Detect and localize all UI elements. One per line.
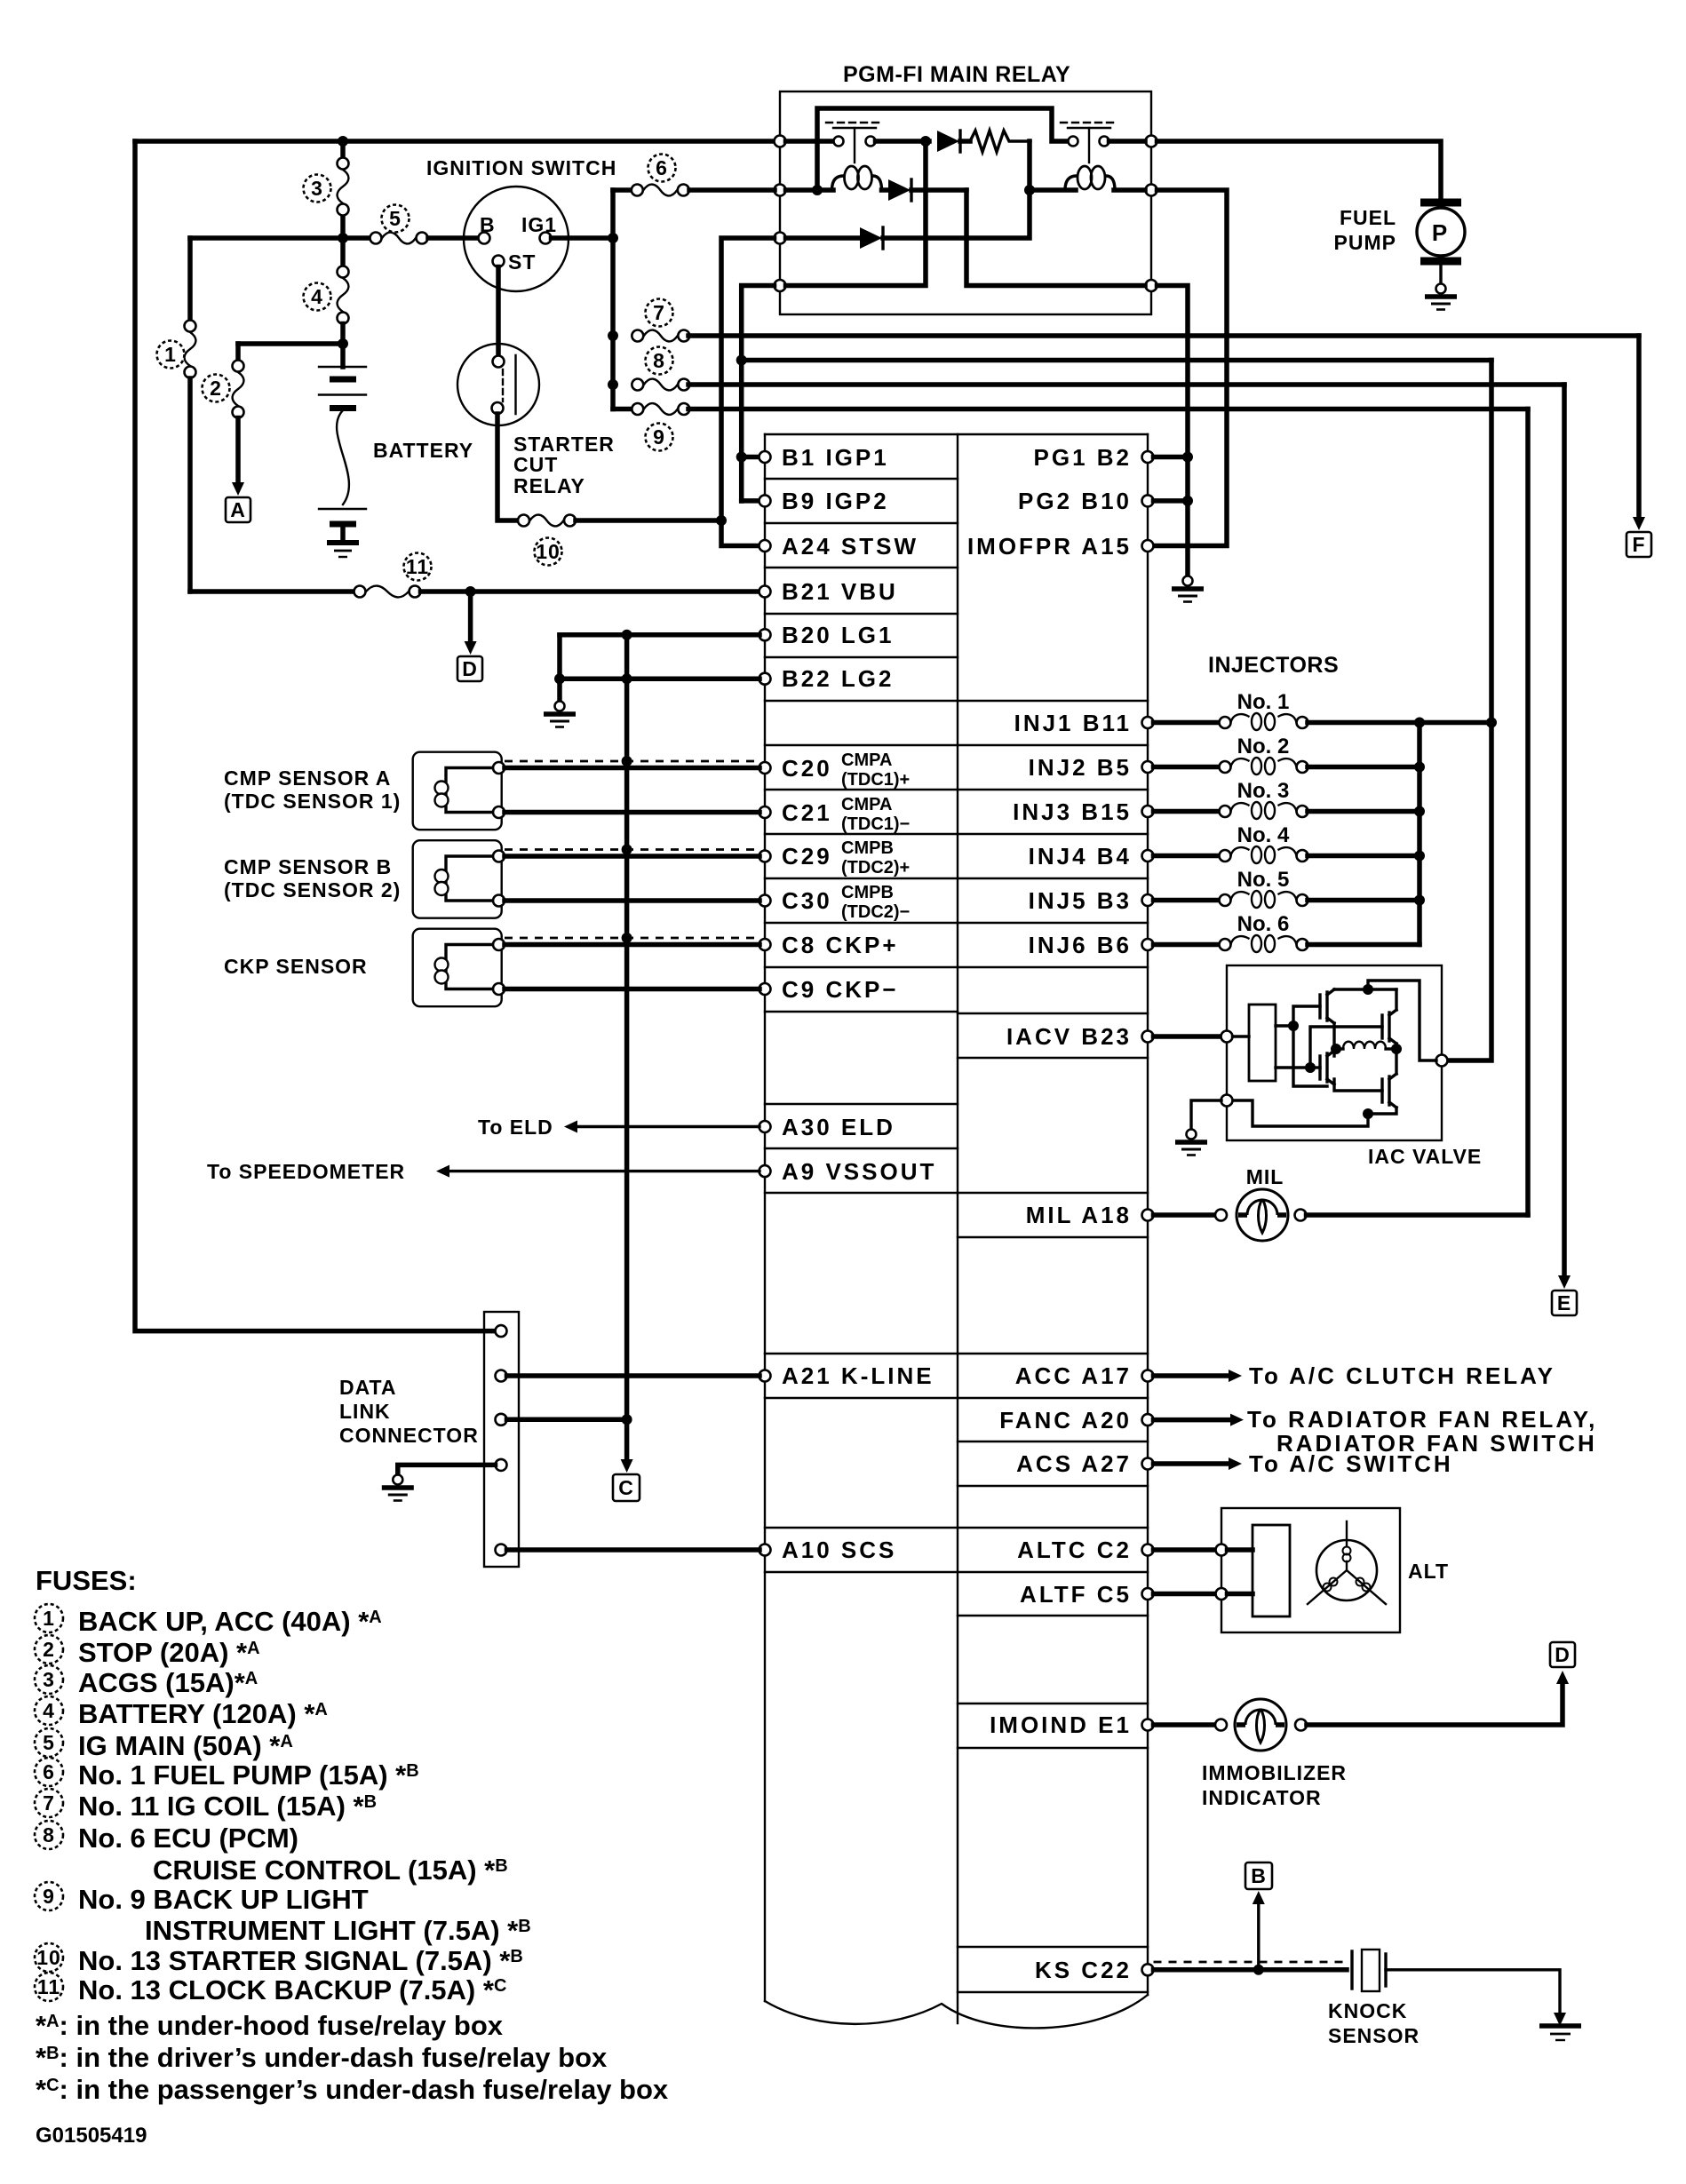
svg-text:A21 K-LINE: A21 K-LINE xyxy=(782,1362,934,1389)
svg-text:IAC VALVE: IAC VALVE xyxy=(1368,1145,1482,1168)
DLC pin 3 xyxy=(496,1414,507,1426)
wire left border xyxy=(135,141,494,1331)
ALT box xyxy=(1221,1508,1400,1632)
diode D1 xyxy=(937,131,959,152)
fuse 3 label xyxy=(304,175,331,203)
svg-text:B1 IGP1: B1 IGP1 xyxy=(782,444,889,471)
wire relay row3-left to A24 riser xyxy=(721,238,775,546)
pin C30 CMPB - xyxy=(759,895,771,907)
svg-text:KNOCK: KNOCK xyxy=(1328,1999,1407,2022)
svg-text:INJ3 B15: INJ3 B15 xyxy=(1013,798,1132,825)
wire LG loop xyxy=(557,635,562,679)
pin PG2 B10 xyxy=(1142,495,1154,506)
svg-text:(TDC2)−: (TDC2)− xyxy=(841,902,910,922)
starter cut relay K2 xyxy=(457,344,539,425)
svg-text:INSTRUMENT LIGHT (7.5A) *B: INSTRUMENT LIGHT (7.5A) *B xyxy=(145,1915,531,1946)
transistor Q4 xyxy=(1382,1074,1396,1108)
DLC pin 1 xyxy=(496,1325,507,1337)
relay terminals left xyxy=(775,136,786,147)
node D box xyxy=(457,656,482,681)
wire coil2 right xyxy=(1114,187,1145,193)
svg-text:No. 9 BACK UP LIGHT: No. 9 BACK UP LIGHT xyxy=(78,1884,369,1915)
node B22 junctions xyxy=(554,673,565,684)
wire shield rail to C box xyxy=(624,635,630,1461)
svg-text:BATTERY: BATTERY xyxy=(373,439,473,462)
svg-text:FUEL: FUEL xyxy=(1340,206,1396,229)
ground LG xyxy=(544,702,576,727)
CKP sensor box xyxy=(413,929,502,1007)
svg-text:A: A xyxy=(230,498,246,521)
wire to B1 xyxy=(742,455,759,460)
fuse 8 (No.6 ECU) xyxy=(632,379,689,391)
svg-text:No. 4: No. 4 xyxy=(1237,823,1290,847)
fuse 6 (No.1 FUEL PUMP) xyxy=(613,187,632,193)
svg-text:ACGS (15A)*A: ACGS (15A)*A xyxy=(78,1667,258,1698)
fuse 7 (No.11 IG COIL) xyxy=(632,330,689,342)
svg-text:CMP SENSOR B: CMP SENSOR B xyxy=(224,855,392,878)
svg-text:2: 2 xyxy=(43,1638,55,1661)
svg-text:E: E xyxy=(1557,1291,1571,1314)
fuse 4 label xyxy=(304,283,331,311)
wire row2 left xyxy=(786,187,834,193)
svg-text:B: B xyxy=(480,213,496,236)
wire KS shield (dashed) xyxy=(1154,1961,1344,1964)
fuse 3 (ACGS) xyxy=(340,141,346,157)
fuse 7 label xyxy=(646,299,673,327)
svg-text:1: 1 xyxy=(43,1607,55,1630)
pin ALTC C2 xyxy=(1142,1545,1154,1556)
DLC pin 4 xyxy=(496,1459,507,1471)
pin C20 CMPA + xyxy=(759,762,771,774)
pin B20 LG1 xyxy=(759,629,771,640)
svg-text:INJ5 B3: INJ5 B3 xyxy=(1029,887,1132,914)
transistor Q3 xyxy=(1320,1051,1334,1084)
svg-text:3: 3 xyxy=(311,177,323,200)
pin MIL A18 xyxy=(1142,1210,1154,1221)
fuse 1 (BACK UP, ACC) xyxy=(185,321,196,378)
svg-text:B9 IGP2: B9 IGP2 xyxy=(782,488,889,514)
battery BT1 xyxy=(340,344,346,367)
svg-text:(TDC1)−: (TDC1)− xyxy=(841,814,910,834)
pin INJ5 B3 xyxy=(1142,894,1154,906)
DLC pin 2 xyxy=(496,1370,507,1382)
pin B9 IGP2 xyxy=(759,495,771,506)
wire C20 xyxy=(505,766,759,771)
wire MIL riser xyxy=(1525,409,1531,1216)
svg-text:FANC A20: FANC A20 xyxy=(999,1407,1132,1433)
relay box K1 xyxy=(780,91,1151,314)
ECM left column box xyxy=(764,434,766,2001)
pin IMOIND E1 xyxy=(1142,1719,1154,1731)
svg-text:C: C xyxy=(618,1476,634,1499)
wire relay row1 mid xyxy=(876,139,930,144)
relay coil L2 xyxy=(1065,166,1115,190)
svg-text:ALTC C2: ALTC C2 xyxy=(1017,1537,1132,1563)
wire row2 to corner xyxy=(911,187,966,193)
wire relay row4-left to B1/B9 riser xyxy=(742,286,775,502)
pin ALTF C5 xyxy=(1142,1588,1154,1600)
svg-text:7: 7 xyxy=(653,301,665,324)
IAC wiring upper xyxy=(1276,1024,1293,1027)
wire C8 shield (dashed) xyxy=(505,937,759,940)
ECM left column cell dividers xyxy=(765,479,958,1572)
pin C8 CKP+ xyxy=(759,939,771,950)
svg-text:CMPA: CMPA xyxy=(841,795,892,814)
svg-text:INJ1 B11: INJ1 B11 xyxy=(1014,710,1132,736)
svg-text:DATA: DATA xyxy=(339,1376,396,1399)
wire relay row1 left xyxy=(786,139,835,144)
wire IAC ground stub xyxy=(1191,1100,1221,1129)
IAC lower rails xyxy=(1334,1079,1382,1091)
svg-text:IG MAIN (50A) *A: IG MAIN (50A) *A xyxy=(78,1730,293,1761)
node B-row junction xyxy=(338,233,348,243)
node D branch junction xyxy=(465,586,476,597)
node B20 shield junction xyxy=(622,630,632,640)
svg-text:INJ4 B4: INJ4 B4 xyxy=(1029,843,1132,870)
wire to B9 xyxy=(742,498,759,504)
wire KS xyxy=(1154,1967,1348,1973)
svg-text:No. 6 ECU (PCM): No. 6 ECU (PCM) xyxy=(78,1823,298,1854)
pin B1 IGP1 xyxy=(759,451,771,463)
svg-text:7: 7 xyxy=(43,1791,55,1815)
wire A9 VSSOUT arrow xyxy=(448,1170,759,1172)
node inner-rect junction xyxy=(812,185,823,195)
ground battery xyxy=(327,540,359,545)
wire ST to fuse10 xyxy=(497,414,518,520)
svg-text:C21: C21 xyxy=(782,799,832,826)
wire MIL to riser xyxy=(1307,1212,1529,1218)
pin INJ6 B6 xyxy=(1142,939,1154,950)
svg-text:1: 1 xyxy=(164,343,177,366)
ground fuel pump xyxy=(1425,284,1457,310)
pin FANC A20 xyxy=(1142,1414,1154,1426)
wire C29 shield (dashed) xyxy=(505,848,759,851)
wire relay row2 to IMOFPR xyxy=(1153,190,1227,546)
relay contact S1 xyxy=(834,137,844,147)
svg-text:(TDC SENSOR 1): (TDC SENSOR 1) xyxy=(224,790,401,813)
svg-text:BATTERY (120A) *A: BATTERY (120A) *A xyxy=(78,1698,328,1729)
svg-text:FUSES:: FUSES: xyxy=(36,1565,137,1596)
node D box right xyxy=(1550,1642,1575,1667)
wire PG1 to ground rail xyxy=(1154,455,1189,460)
pin IMOFPR A15 xyxy=(1142,540,1154,552)
wire fuse1 to fuse11 row xyxy=(187,378,193,592)
svg-text:4: 4 xyxy=(43,1699,55,1722)
wire ALTC xyxy=(1154,1547,1217,1553)
node row1 junction xyxy=(920,136,931,147)
DLC box xyxy=(484,1312,519,1567)
svg-text:A10 SCS: A10 SCS xyxy=(782,1537,896,1563)
ALT regulator block xyxy=(1253,1525,1290,1616)
svg-text:MIL: MIL xyxy=(1246,1165,1284,1188)
node top junction fuse3 xyxy=(338,136,348,147)
wire F drop xyxy=(1636,336,1642,519)
fuse 8 label xyxy=(646,347,673,375)
fuse 11 label xyxy=(404,553,432,581)
pin C21 CMPA - xyxy=(759,806,771,818)
wire IG1 riser xyxy=(610,190,616,409)
svg-text:ACC A17: ACC A17 xyxy=(1015,1362,1132,1389)
fuse 4 (BATTERY) xyxy=(340,238,346,266)
svg-text:RELAY: RELAY xyxy=(513,474,585,497)
knock sensor element xyxy=(1350,1951,1353,1989)
svg-text:No. 13 STARTER SIGNAL (7.5A) *: No. 13 STARTER SIGNAL (7.5A) *B xyxy=(78,1945,523,1976)
wire C30 xyxy=(505,898,759,903)
svg-text:10: 10 xyxy=(36,1946,61,1969)
pin A10 SCS xyxy=(759,1545,771,1556)
svg-text:C9 CKP−: C9 CKP− xyxy=(782,976,899,1003)
node coil2 feed junction xyxy=(1024,185,1035,195)
CMP sensor A box xyxy=(413,752,502,830)
node PG1 junction xyxy=(1182,452,1193,463)
node B1 junction xyxy=(736,452,747,463)
relay coil L1 xyxy=(832,166,882,190)
ground IAC xyxy=(1175,1130,1207,1156)
node shield dot C29 xyxy=(622,845,632,855)
svg-text:CMP SENSOR A: CMP SENSOR A xyxy=(224,766,391,790)
wire C21 xyxy=(505,810,759,815)
svg-text:(TDC1)+: (TDC1)+ xyxy=(841,770,910,790)
svg-text:2: 2 xyxy=(210,377,222,400)
node shield dot C8 xyxy=(622,933,632,943)
node E box xyxy=(1552,1291,1577,1315)
svg-text:(TDC2)+: (TDC2)+ xyxy=(841,858,910,878)
svg-text:CMPB: CMPB xyxy=(841,883,894,902)
transistor Q1 xyxy=(1320,989,1334,1023)
wire LG ground drop xyxy=(557,679,562,701)
wire fuel pump to ground xyxy=(1439,265,1442,283)
pin B22 LG2 xyxy=(759,673,771,685)
node B box xyxy=(1245,1862,1272,1889)
pin ACS A27 xyxy=(1142,1458,1154,1470)
fuse 9 label xyxy=(646,424,673,451)
wire D branch xyxy=(468,592,473,643)
svg-text:ALTF C5: ALTF C5 xyxy=(1020,1581,1132,1608)
wire row1 junction drop to row4 xyxy=(786,141,927,286)
svg-text:8: 8 xyxy=(653,349,665,372)
node fuse10 junction xyxy=(716,515,727,526)
svg-text:4: 4 xyxy=(311,285,323,308)
svg-text:5: 5 xyxy=(43,1731,55,1754)
svg-text:INJECTORS: INJECTORS xyxy=(1208,653,1339,678)
svg-text:To SPEEDOMETER: To SPEEDOMETER xyxy=(207,1160,405,1183)
svg-text:ST: ST xyxy=(508,250,536,274)
pin INJ3 B15 xyxy=(1142,806,1154,817)
fuse 10 label xyxy=(535,538,562,566)
wire row3 to riser xyxy=(883,190,1030,238)
pin B21 VBU xyxy=(759,586,771,598)
lamp MIL xyxy=(1237,1189,1288,1241)
svg-text:CMPA: CMPA xyxy=(841,751,892,770)
CMP sensor B pickup coil xyxy=(446,856,492,901)
svg-text:*B: in the driver’s under-dash: *B: in the driver’s under-dash fuse/rela… xyxy=(36,2042,608,2073)
wire corner down to bottom terminal row xyxy=(966,190,1145,286)
wire IMOIND xyxy=(1154,1722,1216,1727)
IAC inductor L xyxy=(1332,1023,1335,1056)
pin INJ4 B4 xyxy=(1142,850,1154,862)
svg-text:To A/C SWITCH: To A/C SWITCH xyxy=(1249,1450,1453,1477)
CMP sensor B box xyxy=(413,840,502,917)
svg-text:LINK: LINK xyxy=(339,1400,391,1423)
svg-text:5: 5 xyxy=(389,207,402,230)
wire pin3 to shield rail xyxy=(507,1418,627,1423)
wire E drop xyxy=(1562,385,1567,1277)
svg-text:To ELD: To ELD xyxy=(478,1116,553,1139)
pin INJ1 B11 xyxy=(1142,717,1154,728)
lamp immobilizer indicator xyxy=(1235,1699,1286,1751)
svg-text:*A: in the under-hood fuse/rel: *A: in the under-hood fuse/relay box xyxy=(36,2010,504,2041)
svg-text:No. 3: No. 3 xyxy=(1237,779,1290,803)
node IG1 junction xyxy=(608,233,618,243)
wire ALTF xyxy=(1154,1592,1217,1597)
wire fuel pump feed xyxy=(1157,141,1442,203)
svg-text:C8 CKP+: C8 CKP+ xyxy=(782,932,899,958)
svg-text:INDICATOR: INDICATOR xyxy=(1202,1786,1322,1809)
svg-text:P: P xyxy=(1432,219,1450,246)
IAC top rail xyxy=(1334,988,1396,990)
svg-text:INJ6 B6: INJ6 B6 xyxy=(1029,932,1132,958)
wire K-LINE xyxy=(507,1373,760,1378)
svg-text:IMMOBILIZER: IMMOBILIZER xyxy=(1202,1761,1347,1784)
pin A9 VSSOUT xyxy=(759,1165,771,1177)
svg-text:INJ2 B5: INJ2 B5 xyxy=(1029,754,1132,781)
node A arrow xyxy=(232,482,244,496)
svg-text:To A/C CLUTCH RELAY: To A/C CLUTCH RELAY xyxy=(1249,1362,1555,1389)
wire IMOIND to D xyxy=(1307,1682,1563,1725)
svg-text:C29: C29 xyxy=(782,843,832,870)
svg-text:IACV B23: IACV B23 xyxy=(1006,1023,1132,1050)
wire B20 LG1 xyxy=(560,632,759,638)
svg-text:(TDC SENSOR 2): (TDC SENSOR 2) xyxy=(224,878,401,901)
svg-text:PG2 B10: PG2 B10 xyxy=(1018,488,1132,514)
node C box xyxy=(613,1474,640,1501)
svg-text:B21 VBU: B21 VBU xyxy=(782,578,898,605)
svg-text:ALT: ALT xyxy=(1408,1560,1449,1583)
wire PG2 to ground rail xyxy=(1154,498,1189,504)
svg-text:No. 1: No. 1 xyxy=(1237,690,1290,714)
wire C20 shield (dashed) xyxy=(505,760,759,763)
wire C9 xyxy=(505,987,759,992)
svg-text:9: 9 xyxy=(653,425,665,449)
svg-text:To RADIATOR FAN RELAY,: To RADIATOR FAN RELAY, xyxy=(1247,1406,1597,1433)
wire row1 right xyxy=(1109,139,1146,144)
wire inner thick rect xyxy=(817,108,1067,190)
DLC pin 5 xyxy=(496,1545,507,1556)
svg-text:CONNECTOR: CONNECTOR xyxy=(339,1424,479,1447)
wire B row xyxy=(190,235,370,241)
wire IACV into valve xyxy=(1154,1034,1222,1039)
wire B riser xyxy=(1257,1902,1260,1970)
ground KS xyxy=(1554,2013,1566,2026)
ignition switch SW1 xyxy=(464,187,569,291)
svg-text:No. 13 CLOCK BACKUP (7.5A) *C: No. 13 CLOCK BACKUP (7.5A) *C xyxy=(78,1974,506,2005)
fuse 2 label xyxy=(203,375,230,402)
ground PG rail xyxy=(1172,576,1204,602)
svg-text:B22 LG2: B22 LG2 xyxy=(782,665,895,692)
pin KS C22 xyxy=(1142,1964,1154,1975)
svg-text:11: 11 xyxy=(37,1975,60,1998)
svg-text:CRUISE CONTROL (15A) *B: CRUISE CONTROL (15A) *B xyxy=(153,1854,508,1886)
wire ST drop xyxy=(496,267,501,356)
pin ACC A17 xyxy=(1142,1370,1154,1382)
fuse 10 (STARTER SIGNAL) xyxy=(518,515,576,527)
node PG2 junction xyxy=(1182,496,1193,506)
svg-text:*C: in the passenger’s under-d: *C: in the passenger’s under-dash fuse/r… xyxy=(36,2074,669,2105)
wire IG1 row xyxy=(552,235,614,241)
node A box xyxy=(226,497,251,522)
node battery top junction xyxy=(338,338,348,349)
svg-text:G01505419: G01505419 xyxy=(36,2124,147,2148)
wire top border xyxy=(135,139,775,144)
svg-text:3: 3 xyxy=(43,1668,55,1691)
wire ACS A27 arrow xyxy=(1154,1461,1231,1466)
svg-text:C20: C20 xyxy=(782,755,832,782)
fuse 2 (STOP) xyxy=(235,344,241,360)
pin C29 CMPB + xyxy=(759,851,771,862)
wire C8 xyxy=(505,942,759,948)
svg-text:8: 8 xyxy=(43,1823,55,1846)
svg-text:IMOIND E1: IMOIND E1 xyxy=(990,1711,1132,1738)
ALT stator xyxy=(1316,1540,1377,1600)
svg-text:IGNITION SWITCH: IGNITION SWITCH xyxy=(426,156,616,179)
IAC driver block xyxy=(1249,1005,1276,1081)
svg-text:CKP SENSOR: CKP SENSOR xyxy=(224,955,368,978)
svg-text:PUMP: PUMP xyxy=(1334,231,1396,254)
wire relay row4 to PG ground rail xyxy=(1157,286,1189,576)
IAC valve box xyxy=(1227,965,1442,1140)
CKP sensor pickup coil xyxy=(446,945,492,989)
wire A10 SCS xyxy=(507,1547,760,1553)
wire ACC A17 arrow xyxy=(1154,1373,1231,1378)
node row404 start xyxy=(736,355,747,366)
svg-text:11: 11 xyxy=(406,555,429,578)
svg-text:STOP (20A) *A: STOP (20A) *A xyxy=(78,1637,260,1668)
svg-text:B20 LG1: B20 LG1 xyxy=(782,622,895,648)
diode D2 xyxy=(882,187,889,193)
wire C29 xyxy=(505,854,759,859)
ground DLC xyxy=(382,1475,414,1501)
pin C9 CKP- xyxy=(759,983,771,995)
fuse 5 (IG MAIN) xyxy=(370,233,428,244)
fuse 11 row (CLOCK BACKUP) xyxy=(190,589,354,594)
node fuse7 junction xyxy=(608,330,618,341)
svg-text:F: F xyxy=(1632,533,1645,556)
svg-text:SENSOR: SENSOR xyxy=(1328,2024,1420,2047)
svg-text:PG1 B2: PG1 B2 xyxy=(1034,444,1133,471)
svg-text:A24 STSW: A24 STSW xyxy=(782,533,919,560)
node fuse8 junction xyxy=(608,379,618,390)
svg-text:PGM-FI MAIN RELAY: PGM-FI MAIN RELAY xyxy=(843,62,1070,87)
svg-text:6: 6 xyxy=(43,1760,55,1783)
svg-text:No. 5: No. 5 xyxy=(1237,868,1290,892)
svg-text:D: D xyxy=(1555,1643,1571,1666)
wire row3 left xyxy=(786,235,861,241)
svg-text:MIL A18: MIL A18 xyxy=(1026,1202,1132,1228)
wire MIL row xyxy=(1154,1212,1216,1218)
svg-text:B: B xyxy=(1251,1864,1267,1887)
wire B1 feed row404 xyxy=(742,358,1491,363)
ECM torn bottom edge xyxy=(765,1995,1148,2028)
svg-text:KS C22: KS C22 xyxy=(1035,1957,1132,1983)
svg-text:BACK UP, ACC (40A) *A: BACK UP, ACC (40A) *A xyxy=(78,1606,382,1637)
pin INJ2 B5 xyxy=(1142,761,1154,773)
svg-text:No. 2: No. 2 xyxy=(1237,735,1290,758)
wire B22 LG2 xyxy=(560,676,759,681)
fuel pump M1 xyxy=(1420,199,1461,207)
wire fuse1 drop xyxy=(187,238,193,320)
svg-text:D: D xyxy=(462,657,478,680)
svg-text:9: 9 xyxy=(43,1885,55,1908)
